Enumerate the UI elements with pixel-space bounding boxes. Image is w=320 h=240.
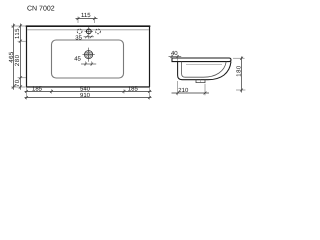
- svg-text:465: 465: [8, 51, 15, 63]
- svg-text:40: 40: [171, 50, 178, 57]
- svg-text:115: 115: [81, 12, 91, 19]
- svg-text:180: 180: [235, 65, 242, 77]
- svg-text:185: 185: [32, 86, 43, 93]
- svg-text:35: 35: [75, 35, 82, 42]
- svg-text:910: 910: [80, 92, 91, 99]
- svg-text:280: 280: [14, 54, 21, 66]
- svg-text:115: 115: [14, 28, 21, 39]
- svg-text:540: 540: [80, 86, 91, 93]
- svg-text:45: 45: [74, 56, 81, 63]
- svg-text:70: 70: [14, 79, 21, 87]
- svg-text:CN 7002: CN 7002: [27, 6, 55, 13]
- svg-text:185: 185: [128, 86, 139, 93]
- svg-text:210: 210: [178, 87, 189, 94]
